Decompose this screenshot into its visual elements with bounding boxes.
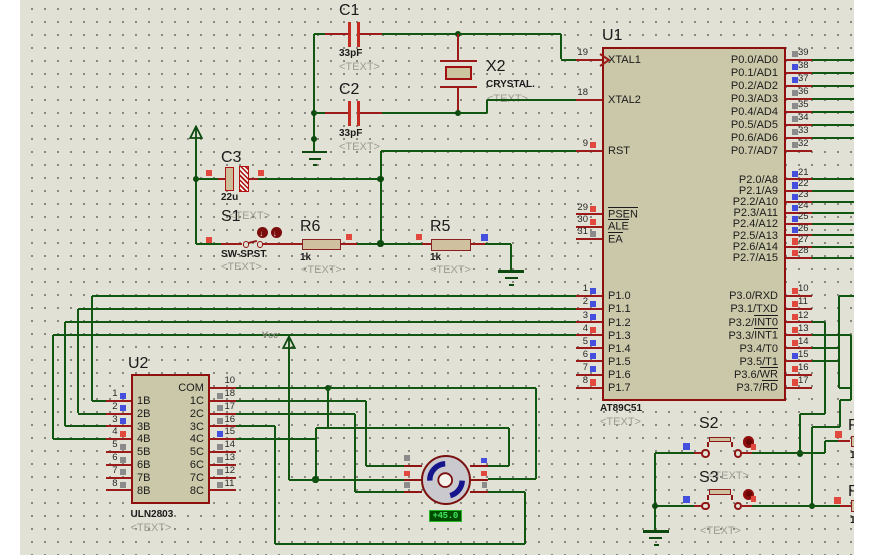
U2 pin 14 stub xyxy=(210,451,236,453)
pin 2 stub xyxy=(576,308,602,310)
pin 26 stub xyxy=(786,234,812,236)
wire COM stair v1 xyxy=(327,388,329,428)
square pin 12 xyxy=(792,314,798,320)
value R1 xyxy=(850,450,856,462)
label R2 xyxy=(848,483,860,501)
pin 37 number xyxy=(798,74,809,85)
resistor R6 right lead xyxy=(341,243,357,245)
wire 2C to motor xyxy=(355,491,404,493)
capacitor C1 right lead xyxy=(360,33,382,35)
pin 25 number xyxy=(798,212,809,223)
pin 6 stub xyxy=(576,360,602,362)
square pin 10 xyxy=(792,288,798,294)
wire COM stair v2 xyxy=(315,428,317,480)
U2 pin 1 stub xyxy=(106,400,132,402)
wire 3C rise xyxy=(524,492,526,543)
U2 pin 5 number xyxy=(112,440,117,451)
pin 25 stub xyxy=(786,223,812,225)
pin 32 stub xyxy=(786,150,812,152)
square U2 pin 17 xyxy=(217,405,223,411)
wire S2 riser xyxy=(824,441,826,453)
wire Vcc2 stem xyxy=(288,349,290,480)
pin name P3.6/WR xyxy=(734,369,778,382)
U2 pin 18 number xyxy=(225,389,236,400)
wire right vertical xyxy=(838,296,840,388)
wire P0.0 bus xyxy=(812,59,854,61)
wire S2 to junction xyxy=(752,452,800,454)
wire P2.3 bus xyxy=(812,212,854,214)
label R1 xyxy=(848,417,860,435)
pin 19 stub xyxy=(576,59,602,61)
wire 1C to motor xyxy=(366,465,404,467)
wire P3.2 out xyxy=(812,321,825,323)
U2 pin 6 number xyxy=(112,453,117,464)
U2 pin 13 number xyxy=(225,453,236,464)
square pin 39 xyxy=(792,51,798,57)
switch S3 actuator xyxy=(743,489,754,500)
wire S2 junction to R1 xyxy=(800,452,825,454)
motor angle label xyxy=(429,510,463,522)
wire to motor mid-right xyxy=(488,478,537,480)
crystal X2 bottom bar xyxy=(440,86,477,88)
square U2 pin 15 xyxy=(217,431,223,437)
ground R5 xyxy=(498,270,524,273)
wire 4C to motor right-up xyxy=(488,465,510,467)
pin 14 stub xyxy=(786,347,812,349)
switch S1 left lead xyxy=(221,243,242,245)
wire S1 left xyxy=(196,243,221,245)
switch S3 left lead xyxy=(694,505,702,507)
pin 8 stub xyxy=(576,387,602,389)
switch S1 lever xyxy=(248,240,257,244)
square pin 28 xyxy=(792,250,798,256)
resistor R1 body xyxy=(851,436,856,448)
square pin 27 xyxy=(792,238,798,244)
wire COM row xyxy=(236,387,328,389)
pin name P3.2/INT0 xyxy=(728,317,778,330)
wire XTAL2 row xyxy=(487,99,576,101)
pin 2 number xyxy=(583,297,588,308)
pin 4 stub xyxy=(576,334,602,336)
wire to U2 1B xyxy=(92,400,106,402)
square U2 pin 1 xyxy=(120,393,126,399)
IC U1 body xyxy=(602,47,786,401)
wire P2.0 bus xyxy=(812,178,854,180)
U2 pin 10 stub xyxy=(210,387,236,389)
square U2 pin 2 xyxy=(120,405,126,411)
square S3 actuator xyxy=(751,496,757,502)
U2 pin 3 number xyxy=(112,415,117,426)
wire S3 to junction xyxy=(752,505,812,507)
wire to R1 lead xyxy=(825,440,839,442)
pin 11 number xyxy=(798,297,808,308)
wire P1.3 row xyxy=(53,334,577,336)
wire C1 to crystal junction xyxy=(382,33,458,35)
pin 3 number xyxy=(583,311,588,322)
U2 pin 16 stub xyxy=(210,425,236,427)
label R1 TEXT xyxy=(850,461,856,473)
pin name P3.1/TXD xyxy=(730,303,778,316)
square motor L1 xyxy=(404,455,410,461)
pin 30 number xyxy=(577,215,588,226)
U2 pin name 6B xyxy=(137,459,150,472)
wire 3C row xyxy=(236,425,275,427)
square pin 23 xyxy=(792,194,798,200)
pin 18 number xyxy=(577,88,588,99)
square U2 pin 11 xyxy=(217,482,223,488)
switch S2 left lead xyxy=(694,452,702,454)
capacitor C1 plates xyxy=(348,22,352,47)
junction Vcc/COM xyxy=(312,476,318,482)
square pin 36 xyxy=(792,90,798,96)
capacitor C2 left lead xyxy=(325,112,348,114)
resistor R5 right lead xyxy=(471,243,485,245)
junction C3/RST xyxy=(377,176,383,182)
switch S2 button bar xyxy=(709,437,731,443)
wire P3.3 step2 xyxy=(812,426,840,428)
switch S2 right lead xyxy=(742,452,752,454)
pin name PSEN xyxy=(608,209,638,222)
label C2 xyxy=(339,81,359,99)
square motor R2 xyxy=(481,471,487,477)
pin name P1.7 xyxy=(608,382,631,395)
switch S2 actuator xyxy=(743,436,754,447)
square pin 14 xyxy=(792,340,798,346)
pin 23 stub xyxy=(786,201,812,203)
pin 5 stub xyxy=(576,347,602,349)
label SW-SPST xyxy=(221,249,266,261)
pin 38 number xyxy=(798,61,809,72)
square U2 pin 18 xyxy=(217,393,223,399)
wire COM drop right xyxy=(535,388,537,479)
pin 21 stub xyxy=(786,178,812,180)
pin name P0.0/AD0 xyxy=(731,54,778,67)
label ULN2803 xyxy=(131,509,174,521)
wire 4C top xyxy=(316,427,509,429)
U2 pin name 2C xyxy=(190,408,204,421)
label X2 TEXT xyxy=(487,93,528,106)
square pin 2 xyxy=(590,301,596,307)
square U2 pin 5 xyxy=(120,444,126,450)
resistor R1 lead xyxy=(838,440,850,442)
junction R6/R5 row xyxy=(377,240,383,246)
wire C1 left xyxy=(314,33,325,35)
wire 3C bottom xyxy=(275,543,525,545)
U2 pin name 5C xyxy=(190,446,204,459)
pin 10 stub xyxy=(786,295,812,297)
U2 pin 2 number xyxy=(112,402,117,413)
square S2 left xyxy=(683,443,690,450)
value C1 33pF xyxy=(339,48,362,60)
pin 12 stub xyxy=(786,321,812,323)
U2 pin 14 number xyxy=(225,440,236,451)
wire 2C drop xyxy=(354,414,356,493)
wire 4C row xyxy=(236,438,316,440)
switch S1 right lead xyxy=(263,243,291,245)
pin 36 stub xyxy=(786,98,812,100)
U2 pin name 7B xyxy=(137,472,150,485)
label U1 TEXT xyxy=(600,416,641,429)
wire P0.4 bus xyxy=(812,111,854,113)
resistor R6 left lead xyxy=(291,243,302,245)
U2 pin name COM xyxy=(178,382,204,395)
pin name P3.4/T0 xyxy=(739,343,778,356)
wire P1.2 row xyxy=(65,321,576,323)
square motor R1 xyxy=(481,458,487,464)
pin name P0.5/AD5 xyxy=(731,119,778,132)
pin name P2.4/A12 xyxy=(733,218,778,231)
value R6 1k xyxy=(300,252,311,264)
pin name P1.3 xyxy=(608,330,631,343)
square pin 35 xyxy=(792,103,798,109)
pin name P2.2/A10 xyxy=(733,196,778,209)
wire P2.6 bus xyxy=(812,246,854,248)
pin name P3.5/T1 xyxy=(739,356,778,369)
U2 pin 18 stub xyxy=(210,400,236,402)
pin 5 number xyxy=(583,337,588,348)
pin 30 stub xyxy=(576,226,602,228)
wire P0.5 bus xyxy=(812,124,854,126)
wire Vcc to motor mid-left xyxy=(289,479,404,481)
square U2 pin 4 xyxy=(120,431,126,437)
U2 pin name 4B xyxy=(137,433,150,446)
pin 38 stub xyxy=(786,72,812,74)
square pin 13 xyxy=(792,327,798,333)
crystal X2 top lead xyxy=(457,34,459,60)
pin 7 stub xyxy=(576,374,602,376)
wire S2/S3 left vertical xyxy=(654,453,656,531)
pin 32 number xyxy=(798,139,809,150)
square pin 16 xyxy=(792,366,798,372)
U2 pin 6 stub xyxy=(106,464,132,466)
pin 27 number xyxy=(798,235,809,246)
U2 pin name 7C xyxy=(190,472,204,485)
square motor L3 xyxy=(404,482,410,488)
pin 9 stub xyxy=(576,150,602,152)
square pin 22 xyxy=(792,182,798,188)
U2 pin 17 number xyxy=(225,402,236,413)
switch S1 toggle buttons xyxy=(257,227,268,238)
pin 18 stub xyxy=(576,99,602,101)
pin 22 stub xyxy=(786,190,812,192)
label X2 xyxy=(486,58,506,76)
motor leads left xyxy=(404,465,422,467)
switch S3 terminals xyxy=(701,502,709,510)
crystal X2 bottom lead xyxy=(457,87,459,113)
wire P1.1 row xyxy=(78,308,576,310)
pin name EA xyxy=(608,233,623,246)
wire P0.3 bus xyxy=(812,98,854,100)
wire C3 left xyxy=(196,178,218,180)
wire C1/C2 left vertical xyxy=(313,34,315,151)
U2 pin 4 stub xyxy=(106,438,132,440)
wire XTAL2 riser xyxy=(486,100,488,114)
square pin 17 xyxy=(792,379,798,385)
resistor R2 lead xyxy=(840,505,851,507)
crystal X2 body xyxy=(445,66,471,80)
capacitor C3 left lead xyxy=(218,178,225,180)
pin 35 stub xyxy=(786,111,812,113)
value C2 33pF xyxy=(339,128,362,140)
resistor R5 body xyxy=(431,239,471,251)
pin name P2.3/A11 xyxy=(734,207,778,220)
pin name ALE xyxy=(608,221,629,234)
pin 33 number xyxy=(798,126,809,137)
square U2 pin 8 xyxy=(120,482,126,488)
wire 1C drop xyxy=(365,401,367,466)
pin 6 number xyxy=(583,350,588,361)
pin name P2.1/A9 xyxy=(739,185,778,198)
U2 pin 4 number xyxy=(112,427,117,438)
resistor R2 body xyxy=(851,500,856,512)
wire XTAL2 step xyxy=(458,112,487,114)
U2 pin name 6C xyxy=(190,459,204,472)
square pin 15 xyxy=(792,353,798,359)
capacitor C3 right lead xyxy=(249,178,259,180)
U2 pin name 3B xyxy=(137,421,150,434)
square U2 pin 7 xyxy=(120,469,126,475)
U2 pin 15 number xyxy=(225,427,236,438)
pin 24 number xyxy=(798,201,809,212)
pin 19 number xyxy=(577,48,588,59)
crystal X2 top bar xyxy=(440,60,477,62)
wire P1.0 vertical xyxy=(91,296,93,401)
pin 37 stub xyxy=(786,85,812,87)
IC U2 body xyxy=(131,374,210,505)
XTAL1 clock chevron xyxy=(599,53,611,67)
capacitor C2 plates xyxy=(348,101,352,126)
U2 pin name 8C xyxy=(190,485,204,498)
pin name P2.5/A13 xyxy=(733,230,778,243)
pin name P1.4 xyxy=(608,343,631,356)
wire P3.3 to S3 xyxy=(811,427,813,506)
U2 pin name 8B xyxy=(137,485,150,498)
label Vcc xyxy=(262,330,278,340)
pin 4 number xyxy=(583,324,588,335)
wire P3.3 out xyxy=(812,334,851,336)
junction S3/P3.3 xyxy=(809,503,815,509)
value R5 1k xyxy=(430,252,441,264)
square motor L2 xyxy=(404,471,410,477)
junction above ground xyxy=(311,136,317,142)
U2 pin name 5B xyxy=(137,446,150,459)
U2 pin 10 number xyxy=(225,376,236,387)
label C3 TEXT xyxy=(229,210,270,223)
U2 pin name 2B xyxy=(137,408,150,421)
square U2 pin 12 xyxy=(217,469,223,475)
square R5 left xyxy=(416,234,422,240)
pin 1 stub xyxy=(576,295,602,297)
U2 pin 13 stub xyxy=(210,464,236,466)
pin 16 stub xyxy=(786,374,812,376)
value R2 xyxy=(850,515,856,527)
power Vcc terminal 2 xyxy=(282,335,296,350)
label R6 xyxy=(300,218,320,236)
motor U3 body xyxy=(420,454,472,506)
wire RST vertical xyxy=(380,151,382,244)
square pin 32 xyxy=(792,142,798,148)
label U1 xyxy=(602,27,622,45)
pin 24 stub xyxy=(786,212,812,214)
pin 39 number xyxy=(798,48,809,59)
junction COM xyxy=(325,385,331,391)
pin 15 number xyxy=(798,350,809,361)
pin name P1.5 xyxy=(608,356,631,369)
U2 pin name 3C xyxy=(190,421,204,434)
pin 27 stub xyxy=(786,246,812,248)
wire P1.1 vertical xyxy=(77,309,79,413)
label S3 xyxy=(699,469,719,487)
junction S2/P3.2 xyxy=(797,450,803,456)
ground C1/C2 xyxy=(302,151,327,154)
wire right link xyxy=(839,387,851,389)
pin 34 stub xyxy=(786,124,812,126)
wire S3 left xyxy=(655,505,694,507)
pin 23 number xyxy=(798,190,809,201)
wire 4C riser xyxy=(315,428,317,439)
pin 26 number xyxy=(798,224,809,235)
pin 34 number xyxy=(798,113,809,124)
U2 pin name 1B xyxy=(137,395,150,408)
U2 pin 11 number xyxy=(225,479,235,490)
pin 35 number xyxy=(798,100,809,111)
pin 15 stub xyxy=(786,360,812,362)
wire S2 left xyxy=(655,452,694,454)
junction S3 left xyxy=(652,503,658,509)
switch S2 terminals xyxy=(701,449,709,457)
pin name P1.6 xyxy=(608,369,631,382)
square pin 33 xyxy=(792,129,798,135)
square pin 25 xyxy=(792,216,798,222)
wire P1.0 row xyxy=(92,295,577,297)
square U2 pin 16 xyxy=(217,418,223,424)
U2 pin name 4C xyxy=(190,433,204,446)
label S3 TEXT hidden xyxy=(708,470,749,483)
wire S1 to R6 xyxy=(291,243,302,245)
pin 9 number xyxy=(583,139,588,150)
switch S1 pole circles xyxy=(243,241,249,247)
pin 21 number xyxy=(798,168,809,179)
label S1 xyxy=(221,208,241,226)
U2 pin 15 stub xyxy=(210,438,236,440)
wire P2.2 bus xyxy=(812,201,854,203)
wire S3 junction to R2 xyxy=(812,505,840,507)
square C3 right xyxy=(258,170,264,176)
pin 8 number xyxy=(583,376,588,387)
wire to U2 4B xyxy=(53,438,106,440)
square pin 1 xyxy=(590,288,596,294)
pin 10 number xyxy=(798,284,809,295)
junction C2 left xyxy=(311,110,317,116)
pin name P1.0 xyxy=(608,290,631,303)
wire R5 ground drop xyxy=(510,244,512,272)
wire XTAL1 drop xyxy=(560,34,562,59)
label R6 TEXT xyxy=(301,264,342,277)
pin name P3.7/RD xyxy=(736,382,778,395)
square R2 xyxy=(834,497,841,504)
pin name P2.0/A8 xyxy=(739,174,778,187)
square S2 actuator xyxy=(751,444,757,450)
square pin 9 xyxy=(590,142,596,148)
pin name P2.6/A14 xyxy=(733,241,778,254)
ground S3 xyxy=(643,530,669,533)
pin name XTAL1 xyxy=(608,54,641,67)
wire 1C row xyxy=(236,400,367,402)
wire C3 to junction xyxy=(258,178,381,180)
U2 pin 12 stub xyxy=(210,477,236,479)
capacitor C1 left lead xyxy=(325,33,348,35)
square R5 right xyxy=(481,234,488,241)
